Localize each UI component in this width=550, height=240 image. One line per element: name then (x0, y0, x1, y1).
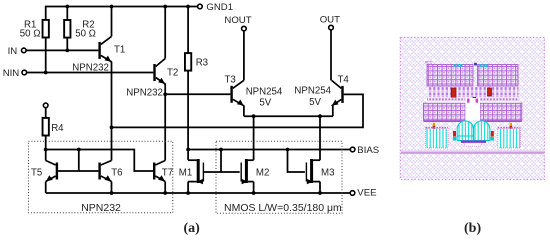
svg-text:NPN232: NPN232 (72, 63, 109, 74)
label T6 (111, 167, 122, 178)
svg-text:IN: IN (8, 46, 18, 57)
wire T4 emitter down (332, 106, 334, 117)
node junction T6 emitter VEE (110, 191, 114, 195)
layout bottom contact row (427, 97, 519, 103)
svg-text:T1: T1 (114, 45, 125, 56)
wire T2 collector riser (164, 7, 166, 59)
label T2 (167, 68, 178, 79)
wire R4 top lead (45, 108, 47, 118)
wire T1 collector riser (111, 7, 113, 37)
svg-text:NPN254: NPN254 (294, 86, 331, 97)
wire top rail GND1 with R1 top lead (46, 7, 198, 20)
node junction R1-NIN (44, 71, 48, 75)
wire OUT to T4 collector (330, 30, 332, 81)
wire T1 emitter down to mirror (111, 62, 113, 161)
wire M1-M2 gate line (203, 171, 240, 173)
node junction T7 emitter VEE (163, 191, 167, 195)
node junction M2 drain (252, 114, 256, 118)
terminal IN (22, 48, 27, 53)
layout die background (400, 37, 546, 181)
transistor T7 (153, 161, 165, 182)
label BIAS (357, 145, 379, 156)
label R1 value 50 ohm (20, 28, 41, 39)
svg-text:VCC: VCC (425, 61, 433, 65)
resistor R2 (64, 20, 70, 38)
label M2 (256, 168, 269, 179)
wire M1 source down (187, 182, 189, 193)
wire R3 top lead (187, 7, 189, 54)
layout mid mesh right (480, 103, 522, 120)
wire R3 bottom lead to BIAS and M1 drain (187, 71, 189, 161)
layout center arches (457, 121, 490, 146)
wire T2 emitter to T3 base (165, 93, 230, 95)
label box NPN232 (81, 202, 121, 214)
terminal NIN (22, 70, 27, 75)
node junction T1 collector on rail (110, 5, 114, 9)
node junction gate riser 2 BIAS (286, 148, 290, 152)
wire M3 source down (319, 182, 321, 193)
node junction gate riser 1 BIAS (219, 148, 223, 152)
node junction M1 source VEE (186, 191, 190, 195)
svg-text:50 Ω: 50 Ω (20, 28, 41, 39)
svg-text:5V: 5V (309, 97, 321, 108)
svg-text:T7: T7 (162, 167, 173, 178)
wire base tie riser (78, 150, 80, 172)
label R2 value 50 ohm (75, 28, 96, 39)
wire T3 emitter down (243, 105, 245, 116)
svg-text:M1: M1 (179, 168, 192, 179)
wire gate riser 1 (220, 150, 222, 173)
wire VEE rail (46, 192, 351, 194)
terminal BIAS (350, 147, 355, 152)
dashed box NPN232 mirror (29, 141, 173, 213)
node junction M3 drain (318, 114, 322, 118)
node junction R2 top (65, 5, 69, 9)
label R2 (82, 19, 94, 30)
label NOUT (224, 15, 251, 26)
wire R2 top lead (66, 7, 68, 21)
resistor R1 (43, 20, 49, 38)
svg-text:T5: T5 (31, 167, 42, 178)
svg-text:NOUT: NOUT (224, 15, 251, 26)
label T1 (114, 45, 125, 56)
transistor M2 (241, 159, 254, 184)
node junction M2 source VEE (252, 191, 256, 195)
svg-text:R3: R3 (196, 57, 208, 68)
resistor R3 (185, 53, 191, 71)
label R1 (24, 19, 36, 30)
layout finger band (427, 87, 519, 99)
transistor M3 (306, 159, 320, 184)
svg-text:50 Ω: 50 Ω (75, 28, 96, 39)
terminal R4 top (43, 103, 48, 108)
label T4 NPN254 (294, 86, 331, 97)
node junction T2 collector on rail (163, 5, 167, 9)
terminal VEE (350, 191, 355, 196)
label T3 NPN254 (246, 86, 283, 97)
label T3 (225, 74, 236, 85)
node junction T2 emitter - T3 base (163, 92, 167, 96)
label caption (a) (184, 221, 201, 236)
svg-text:NPN232: NPN232 (81, 202, 121, 214)
svg-text:M2: M2 (256, 168, 269, 179)
node junction base tie riser (77, 148, 81, 152)
node junction R4 - mirror rail (44, 148, 48, 152)
layout mid mesh left (424, 103, 466, 120)
label R4 (51, 123, 64, 134)
svg-text:NPN254: NPN254 (246, 86, 283, 97)
layout flank contacts (453, 131, 494, 141)
wire T2 emitter down to T7 collector (164, 84, 166, 161)
label IN (8, 46, 18, 57)
transistor M1 (188, 159, 204, 184)
transistor T4 (332, 80, 344, 106)
svg-text:M3: M3 (321, 168, 334, 179)
svg-text:VEE: VEE (357, 188, 376, 199)
label M3 (321, 168, 334, 179)
wire emitters T3-T4 (244, 115, 333, 117)
wire BIAS (188, 149, 350, 151)
transistor T2 (153, 59, 165, 85)
wire NOUT to T3 collector (243, 31, 245, 80)
wire mirror collector rail to T7 base (46, 150, 154, 172)
svg-text:NPN232: NPN232 (126, 87, 163, 98)
wire R1 bottom lead to NIN (45, 38, 47, 73)
label NIN (3, 68, 20, 79)
wire T5-T6 base line (58, 170, 98, 172)
node junction R3 top on rail (186, 5, 190, 9)
label T4 (338, 74, 350, 85)
layout mid center column (465, 98, 480, 121)
label T2 NPN232 (126, 87, 163, 98)
label M1 (179, 168, 192, 179)
transistor T1 (98, 36, 111, 62)
svg-text:NIN: NIN (3, 68, 20, 79)
terminal NOUT (242, 26, 247, 31)
layout striped emitter right (498, 128, 521, 148)
label T3 5V (259, 98, 271, 109)
svg-text:T3: T3 (225, 74, 236, 85)
label VEE (357, 188, 376, 199)
layout divider mark (474, 63, 477, 66)
wire IN to T1 base (26, 49, 98, 51)
wire M2 drain up (253, 116, 255, 160)
label GND1 (206, 2, 233, 13)
label R3 (196, 57, 208, 68)
wire T5 emitter down (45, 182, 47, 194)
layout striped emitter left (426, 128, 449, 148)
wire gate riser 2 and M3 gate lead (288, 150, 305, 173)
svg-text:R4: R4 (51, 123, 64, 134)
terminal OUT (329, 25, 334, 30)
wire T6 emitter down (111, 182, 113, 194)
svg-text:T6: T6 (111, 167, 122, 178)
label caption (b) (464, 221, 481, 236)
label T7 (162, 167, 173, 178)
transistor T5 (46, 161, 58, 182)
layout bottom band (401, 151, 544, 155)
transistor T6 (98, 161, 111, 182)
layout capacitor array right (478, 64, 519, 86)
resistor R4 (43, 118, 49, 136)
wire NIN to T2 base (27, 72, 154, 74)
node junction R3-M1-BIAS (186, 148, 190, 152)
layout capacitor array left (427, 64, 473, 86)
label T4 5V (309, 97, 321, 108)
transistor T3 (230, 80, 244, 106)
label T5 (31, 167, 42, 178)
terminal GND1 (198, 4, 203, 9)
label OUT (320, 14, 340, 25)
wire T7 emitter down (164, 182, 166, 194)
layout corner marks (433, 123, 512, 129)
svg-text:NMOS L/W=0.35/180 μm: NMOS L/W=0.35/180 μm (224, 202, 342, 214)
layout VCC label (425, 61, 433, 65)
wire M3 drain up (319, 116, 321, 160)
svg-text:(b): (b) (464, 221, 481, 236)
svg-text:(a): (a) (184, 221, 201, 236)
wire M2 source down (253, 182, 255, 193)
svg-text:BIAS: BIAS (357, 145, 379, 156)
dashed box NMOS (216, 141, 342, 213)
label box NMOS L/W (224, 202, 342, 214)
wire T4 base loop to T1 emitter (112, 94, 364, 127)
wire R4 bottom lead to T5 collector (45, 136, 47, 161)
wire R2 bottom lead to IN (66, 38, 68, 51)
svg-text:GND1: GND1 (206, 2, 233, 13)
node junction R2-IN (65, 49, 69, 53)
node junction T1 emitter - T4 base wire (110, 126, 114, 130)
label T1 NPN232 (72, 63, 109, 74)
svg-text:T2: T2 (167, 68, 178, 79)
svg-text:T4: T4 (338, 74, 350, 85)
node junction M3 source VEE (318, 191, 322, 195)
layout mid bottom line (424, 120, 522, 122)
svg-text:OUT: OUT (320, 14, 340, 25)
svg-text:5V: 5V (259, 98, 271, 109)
